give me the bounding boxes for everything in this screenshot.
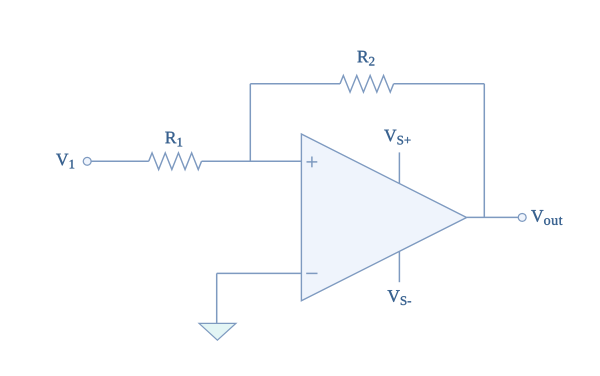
terminal V1 bbox=[83, 157, 91, 165]
wire minus input bbox=[217, 272, 302, 274]
op-amp plus input symbol bbox=[307, 157, 318, 168]
wire feedback vertical left bbox=[249, 84, 251, 161]
label VS- bbox=[388, 290, 412, 305]
wire top left to R2 bbox=[250, 83, 340, 85]
label R2 bbox=[357, 51, 374, 66]
wire R2 to right corner bbox=[394, 83, 485, 85]
wire R1 to op-amp plus input bbox=[202, 160, 302, 162]
ground bbox=[199, 323, 236, 340]
label V1 bbox=[56, 154, 74, 169]
power pin VS- bbox=[398, 251, 400, 282]
label VS+ bbox=[384, 130, 410, 145]
wire input V1 to R1 bbox=[91, 160, 149, 162]
op-amp minus input symbol bbox=[306, 272, 317, 274]
op-amp U1 bbox=[301, 134, 466, 301]
label Vout bbox=[531, 210, 562, 225]
resistor R2 bbox=[340, 76, 394, 93]
wire feedback vertical right bbox=[483, 84, 485, 218]
wire ground stem bbox=[216, 273, 218, 323]
terminal Vout bbox=[518, 213, 526, 221]
power pin VS+ bbox=[398, 152, 400, 183]
wire output bbox=[467, 216, 519, 218]
label R1 bbox=[165, 132, 182, 147]
resistor R1 bbox=[149, 153, 202, 170]
